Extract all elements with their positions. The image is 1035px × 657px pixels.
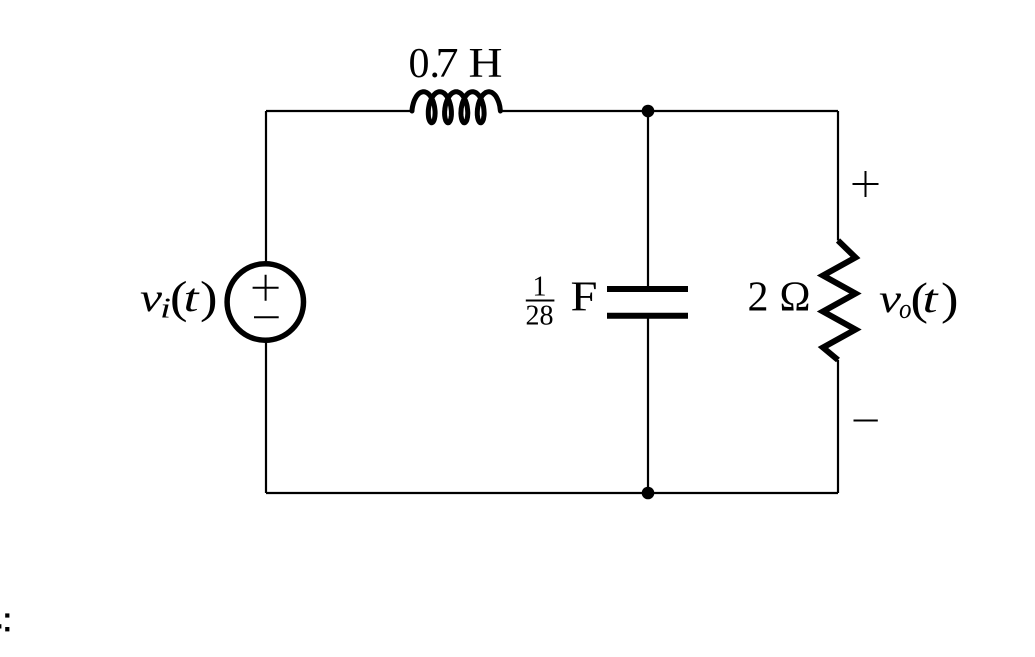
output plus sign [853, 171, 879, 197]
svg-text:): ) [941, 273, 959, 324]
truncated letter sliver at left edge [0, 624, 1, 628]
wire capacitor branch lower [647, 318, 649, 493]
svg-text:28: 28 [526, 301, 554, 332]
inductor L1 coil [412, 92, 500, 123]
svg-text:F: F [571, 275, 598, 321]
output minus sign [854, 420, 878, 422]
wire capacitor branch upper [647, 111, 649, 287]
svg-text:v: v [879, 276, 901, 321]
svg-text:t: t [923, 276, 939, 321]
voltage source minus sign [254, 316, 279, 318]
capacitor C1 bottom plate [607, 313, 688, 319]
svg-text:): ) [200, 272, 218, 323]
capacitor C1 top plate [607, 286, 688, 292]
svg-text:t: t [184, 275, 200, 320]
svg-text:1: 1 [533, 272, 547, 303]
wire bottom horizontal [266, 492, 838, 494]
wire right vertical upper [837, 111, 839, 241]
wire left vertical upper [265, 111, 267, 262]
wire right vertical lower [837, 360, 839, 493]
resistor R1 zigzag [823, 241, 856, 361]
voltage source plus sign [253, 275, 279, 301]
wire top-right horizontal [500, 110, 838, 112]
node junction dot top [642, 105, 655, 118]
wire top-left horizontal [266, 110, 412, 112]
svg-text:v: v [140, 275, 162, 320]
svg-text:H: H [469, 41, 503, 87]
svg-text:2: 2 [748, 275, 769, 321]
svg-text:Ω: Ω [780, 275, 811, 321]
node junction dot bottom [642, 487, 655, 500]
truncated text colon bottom-left [5, 613, 9, 617]
wire left vertical lower [265, 342, 267, 493]
voltage source V1 circle [227, 264, 303, 340]
capacitor fraction bar [526, 300, 555, 302]
svg-text:7: 7 [436, 41, 459, 87]
